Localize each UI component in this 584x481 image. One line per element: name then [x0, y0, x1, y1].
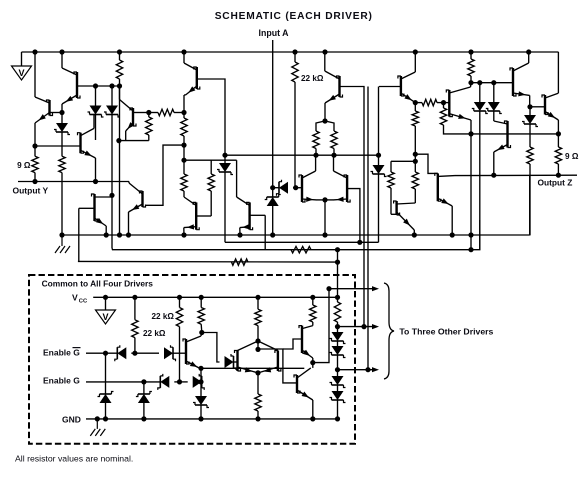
- wire Q4a-base: [79, 207, 95, 209]
- svg-text:Enable G: Enable G: [43, 376, 80, 386]
- node gnd-3: [141, 416, 146, 421]
- svg-text:9 Ω: 9 Ω: [565, 152, 579, 161]
- resistor R-lineC: [232, 259, 249, 265]
- node rail-62: [59, 49, 64, 54]
- node Gbar-clamp: [103, 351, 108, 356]
- transistor Q12: [184, 197, 199, 235]
- wire Q30-basefeed: [202, 333, 220, 363]
- transistor Q14: [299, 171, 317, 202]
- box common-drivers: [29, 275, 355, 444]
- resistor R-391: [388, 161, 397, 214]
- node D5-top: [491, 80, 496, 85]
- wire Q30e-Q33coll: [201, 367, 304, 369]
- transistor Q11: [129, 183, 146, 212]
- resistor R4: [146, 113, 152, 141]
- node pair-emit: [322, 197, 327, 202]
- label Output Z: [538, 177, 573, 187]
- transistor Q30: [183, 336, 201, 369]
- resistor R3: [116, 52, 122, 86]
- diode D5: [486, 102, 502, 114]
- node J558-133: [556, 131, 561, 136]
- transistor Q18: [446, 87, 471, 121]
- wire Q9-coll: [529, 95, 531, 106]
- node vcc-4: [199, 295, 204, 300]
- diode D-378: [371, 155, 387, 242]
- wire Q2-feed: [61, 52, 63, 68]
- node gnd-5: [255, 416, 260, 421]
- transistor Q13: [237, 197, 253, 235]
- resistor R-22k-input: [292, 52, 298, 188]
- node rail-35: [32, 49, 37, 54]
- wire D4-cath: [479, 111, 481, 250]
- node gnd-7: [335, 416, 340, 421]
- wire Q7-coll-up: [324, 52, 326, 71]
- transistor Q32: [299, 326, 313, 358]
- wire Q6feed: [183, 52, 185, 63]
- node rail-184: [181, 49, 186, 54]
- wire Q5-emit: [125, 131, 127, 141]
- wire Q4a-emit: [105, 226, 107, 235]
- node OutY-1: [93, 179, 98, 184]
- wire tap3: [338, 367, 380, 372]
- node vcc-6: [310, 295, 315, 300]
- diode D-Gbar2: [159, 345, 176, 361]
- wire Q13-base: [250, 215, 266, 249]
- wire D3-lead: [111, 86, 113, 106]
- resistor R7a: [181, 160, 187, 197]
- node vcc-1: [103, 295, 108, 300]
- diode D3: [104, 106, 120, 118]
- wire G-seg2: [180, 381, 188, 383]
- wire Q19-emit: [493, 152, 495, 175]
- node D4-top: [477, 80, 482, 85]
- node Q32-emit: [310, 360, 315, 365]
- node Q30-collnode: [199, 330, 204, 335]
- diode D1: [54, 113, 70, 147]
- wire InputA-line: [272, 40, 274, 188]
- node D530-top: [527, 104, 532, 109]
- wire hexmid-Q33base: [258, 349, 297, 383]
- node vcc-7: [335, 295, 340, 300]
- wire Q5-feed: [119, 86, 121, 100]
- wire D3-cath: [111, 115, 113, 196]
- resistor R-415: [412, 103, 418, 126]
- node J471-82: [468, 80, 473, 85]
- transistor Q15: [333, 171, 350, 202]
- transistor Q9 pnp: [510, 63, 530, 97]
- wire Q19-coll: [0, 0, 1, 1]
- wire rail-end-down: [557, 52, 559, 93]
- resistor R-312: [310, 297, 316, 325]
- svg-text:Output Z: Output Z: [538, 177, 573, 187]
- wire tap1: [329, 286, 379, 291]
- wire yM1-line: [225, 154, 379, 156]
- node Q8bd: [376, 153, 381, 158]
- wire A1-A2-Q3base: [35, 145, 81, 147]
- wire lower-rail: [62, 175, 530, 235]
- diode Dstk4: [330, 385, 346, 419]
- transistor Q19: [494, 121, 511, 152]
- label EnableGbar: [43, 347, 81, 357]
- wire Q7-emit: [324, 103, 326, 121]
- wire Q32-emit: [312, 358, 314, 363]
- wire Q11-coll-outY: [128, 182, 130, 184]
- wire Q2-coll-down: [61, 104, 63, 113]
- ground main-left: [55, 236, 70, 253]
- wire Q8-base-down: [378, 87, 380, 156]
- wire lineB: [112, 220, 480, 250]
- label EnableG: [43, 376, 80, 386]
- wire D2-lead: [95, 86, 97, 106]
- node J415b: [413, 159, 418, 164]
- label 22k-Gbar: [143, 329, 166, 338]
- label 9ohm-left: [17, 161, 31, 170]
- wire Q32-base: [283, 339, 302, 349]
- wire Q11-emit: [128, 212, 130, 235]
- diode D530: [522, 107, 538, 134]
- wire top-rail: [22, 51, 559, 53]
- svg-text:Common to All Four Drivers: Common to All Four Drivers: [42, 279, 154, 289]
- node hex-emit: [255, 370, 260, 375]
- wire Q32emit-down: [312, 363, 314, 368]
- node G-clamp: [141, 379, 146, 384]
- wire Q7-base: [340, 87, 365, 327]
- svg-text:Output Y: Output Y: [13, 185, 49, 195]
- node J530-133: [0, 0, 1, 1]
- wire stack-entry: [337, 262, 339, 302]
- wire Q6-coll: [184, 95, 186, 113]
- note: [15, 454, 133, 464]
- node rail2-b: [104, 232, 109, 237]
- node hex-mid: [255, 347, 260, 352]
- wire Q30-coll: [200, 333, 203, 337]
- transistor Q31: [235, 351, 259, 375]
- wire J145-J160: [183, 145, 185, 160]
- wire Gbar-seg2: [135, 352, 159, 354]
- node rail2-h: [322, 232, 327, 237]
- wire D3-lineB: [111, 195, 113, 248]
- wire Q5-base: [133, 112, 149, 114]
- svg-text:All resistor values are nomina: All resistor values are nominal.: [15, 454, 133, 464]
- node tap3-x368: [365, 367, 370, 372]
- node gnd-1: [95, 416, 100, 421]
- transistor Q8: [398, 72, 415, 103]
- resistor R2: [59, 146, 65, 235]
- diode D-mid-h: [273, 180, 296, 196]
- node rail2-c: [117, 232, 122, 237]
- node lineB-471: [468, 247, 473, 252]
- node OutZ-2: [556, 173, 561, 178]
- resistor R-443: [440, 103, 471, 134]
- node rail2-f: [237, 232, 242, 237]
- label to-three: [399, 327, 493, 337]
- wire Q4a-base-down: [78, 208, 80, 261]
- wire Q9-feed: [528, 52, 530, 63]
- wire lineB-tapdown: [337, 250, 339, 262]
- node rail-471: [468, 49, 473, 54]
- wire EnableG: [86, 381, 160, 383]
- diode Dstk3: [330, 370, 346, 388]
- node gnd-2: [103, 416, 108, 421]
- transistor Q10: [435, 173, 455, 206]
- node rail-119.5: [117, 49, 122, 54]
- node gnd-4: [198, 416, 203, 421]
- node rail-528.7: [526, 49, 531, 54]
- wire Q18-emit: [470, 120, 472, 134]
- node Re1: [313, 153, 318, 158]
- node J145: [181, 143, 186, 148]
- node lineB-tap: [335, 247, 340, 252]
- diode D-G2: [193, 374, 205, 390]
- node J140: [116, 138, 121, 143]
- node J471-133: [468, 131, 473, 136]
- node rail2-a: [59, 232, 64, 237]
- node G-Q30e: [198, 379, 203, 384]
- node rail2-e: [181, 232, 186, 237]
- wire EnableGbar: [86, 352, 117, 354]
- transistor Q4a: [92, 194, 112, 226]
- wire x119-down: [119, 86, 121, 235]
- node R4-top: [146, 110, 151, 115]
- label common: [42, 279, 154, 289]
- node rail-325: [322, 49, 327, 54]
- diode D-Gbar1: [115, 345, 135, 361]
- wire y106-line: [530, 106, 545, 108]
- wire Q18-base: [444, 102, 450, 104]
- node A2: [0, 0, 1, 1]
- resistor R-530: [527, 134, 533, 175]
- wire Q6-base: [197, 79, 225, 155]
- transistor Q6 pnp: [184, 63, 200, 95]
- node rail2-j: [412, 232, 417, 237]
- svg-text:V: V: [18, 68, 24, 78]
- wire emit-split: [316, 121, 334, 131]
- wire Vcc-line: [93, 296, 337, 298]
- svg-text:22 kΩ: 22 kΩ: [301, 74, 324, 83]
- resistor R-258: [255, 297, 261, 340]
- node R3-bot: [117, 83, 122, 88]
- diode D-clampG: [136, 382, 152, 419]
- node tap1: [326, 286, 331, 291]
- node rail-415.3: [413, 49, 418, 54]
- label 22k-G: [152, 312, 175, 321]
- wire yM2-line: [184, 159, 237, 161]
- wire Q1-emitter-down: [34, 123, 36, 146]
- wire Q30-emit-down: [200, 369, 202, 396]
- resistor R-558 9ohm: [555, 134, 561, 175]
- wire x471-down: [470, 134, 472, 250]
- wire Q3-emit-down: [95, 158, 97, 182]
- node A1: [32, 143, 37, 148]
- wire Q14-emit-j: [317, 199, 325, 201]
- svg-text:22 kΩ: 22 kΩ: [143, 329, 166, 338]
- svg-text:V: V: [72, 293, 78, 303]
- node rail2-g: [270, 232, 275, 237]
- transistor Q7: [325, 71, 343, 103]
- label Output Y: [13, 185, 49, 195]
- wire Q15-base: [347, 189, 360, 243]
- resistor R-415b: [412, 172, 418, 203]
- power Vcc symbol: [12, 66, 32, 80]
- svg-text:GND: GND: [62, 414, 81, 424]
- resistor Rh-Q8e: [415, 99, 443, 105]
- diode D-hex: [220, 354, 237, 370]
- svg-text:To Three Other Drivers: To Three Other Drivers: [399, 327, 493, 337]
- resistor R22k-Gbar: [132, 297, 138, 353]
- wire D5-lead: [493, 83, 495, 102]
- resistor R-471: [468, 52, 474, 83]
- wire tap2: [338, 324, 380, 329]
- node D3-top: [109, 83, 114, 88]
- wire Q8-coll-up: [414, 52, 416, 72]
- node lineA-tap: [357, 240, 362, 245]
- ground box-gnd: [90, 419, 105, 436]
- wire yM2-right: [391, 160, 415, 162]
- diode D225: [217, 155, 233, 242]
- wire Q11-base-path: [146, 145, 184, 205]
- node vcc-2: [132, 295, 137, 300]
- resistor R5: [149, 109, 184, 115]
- resistor R7b: [208, 160, 214, 216]
- wire node133-line: [471, 133, 558, 135]
- wire Q20-emit: [557, 120, 559, 134]
- transistor Q33: [294, 368, 313, 400]
- node yM1-left: [222, 153, 227, 158]
- node Q8-emit: [413, 100, 418, 105]
- wire OutputZ: [455, 174, 577, 176]
- diode D-mid-v: [265, 188, 281, 235]
- node lineC-end: [335, 260, 340, 265]
- diode Dstk2: [330, 341, 346, 370]
- node vcc-3: [177, 295, 182, 300]
- diode D4: [472, 102, 488, 114]
- resistor R-hex: [255, 394, 261, 419]
- wire D2-cath: [95, 115, 97, 141]
- wire Q8basedown2: [367, 87, 369, 370]
- wire hex-d1: [238, 341, 259, 351]
- resistor R-e1: [313, 131, 319, 155]
- resistor R-lineB: [291, 247, 311, 253]
- diode D-clampGbar: [98, 353, 114, 419]
- resistor R-stack: [334, 302, 340, 327]
- power Vcc-tri-box: [96, 297, 116, 324]
- wire Q3-coll-up: [94, 115, 96, 129]
- wire Vcc-stub: [21, 52, 23, 66]
- brace to-three: [384, 283, 394, 379]
- wire Gbar-Q30: [173, 352, 186, 354]
- resistor R-Q30: [198, 297, 204, 332]
- node stack-2: [335, 367, 340, 372]
- svg-text:9 Ω: 9 Ω: [17, 161, 31, 170]
- wire x415-down: [414, 126, 416, 172]
- node gnd-6: [310, 416, 315, 421]
- wire base-bus-left: [77, 85, 120, 87]
- wire Q18-coll: [470, 83, 473, 87]
- node rail2-d: [126, 232, 131, 237]
- node J160: [181, 158, 186, 163]
- title: [215, 11, 373, 22]
- wire lineC: [78, 260, 336, 263]
- wire Q12-base: [196, 215, 211, 217]
- transistor Q5: [120, 100, 137, 132]
- node Re2: [331, 153, 336, 158]
- wire pair-emit-down: [324, 200, 326, 235]
- wire Q1-base: [50, 112, 63, 114]
- node G-R: [177, 379, 182, 384]
- wire Q17-emit: [413, 230, 415, 235]
- wire hex-emit-down: [257, 373, 259, 394]
- wire Q15-emit-j: [325, 199, 333, 201]
- wire Q8-base: [379, 86, 401, 88]
- node rail-295: [292, 49, 297, 54]
- diode Dstk1: [330, 327, 346, 344]
- node hex-top: [255, 338, 260, 343]
- wire OutputY: [18, 181, 129, 183]
- node stack-1: [335, 324, 340, 329]
- node J415a: [413, 152, 418, 157]
- node J443: [441, 100, 446, 105]
- svg-text:SCHEMATIC (EACH DRIVER): SCHEMATIC (EACH DRIVER): [215, 11, 373, 22]
- node R1-out: [32, 179, 37, 184]
- node vcc-5: [255, 295, 260, 300]
- transistor Q1: [35, 97, 53, 123]
- node Q30e-T: [198, 366, 203, 371]
- wire Q10-emit: [451, 206, 453, 235]
- node rail2-m: [468, 232, 473, 237]
- svg-text:CC: CC: [79, 298, 88, 304]
- wire Q13-coll-up: [236, 160, 238, 197]
- diode D-Q30e: [193, 396, 209, 419]
- svg-text:Enable G: Enable G: [43, 347, 80, 357]
- node D1-top: [59, 110, 64, 115]
- transistor Q17: [394, 201, 416, 230]
- node rail2-l: [450, 232, 455, 237]
- node Q4a-coll: [109, 193, 114, 198]
- label 22k-input: [301, 74, 324, 83]
- wire Q4a-coll: [110, 195, 113, 197]
- resistor R6: [181, 113, 187, 146]
- node In-D: [270, 185, 275, 190]
- node Gbar-R: [132, 351, 137, 356]
- wire hex-d2: [258, 341, 278, 351]
- diode D2: [88, 106, 104, 118]
- wire Q33-emit: [312, 400, 314, 419]
- resistor R-e2: [331, 131, 337, 155]
- node R6-top: [181, 110, 186, 115]
- wire R530-underloop: [529, 175, 531, 235]
- wire Dhex-out: [234, 361, 237, 363]
- transistor Q2: [62, 68, 80, 104]
- wire hex-top: [257, 341, 259, 349]
- svg-text:Input A: Input A: [259, 28, 290, 38]
- label 9ohm-right: [565, 152, 579, 161]
- wire Q32emit-right: [313, 289, 329, 363]
- node D-mid-anode: [293, 185, 298, 190]
- wire lineA: [225, 241, 379, 243]
- resistor R1 9ohm: [32, 146, 38, 182]
- wire Q10-base-path: [415, 154, 438, 173]
- label Input A: [259, 28, 290, 38]
- wire D4-lead: [479, 83, 481, 102]
- transistor Q3: [78, 128, 96, 158]
- wire D5-cath: [493, 111, 495, 121]
- wire base-bus-right: [471, 82, 513, 84]
- label Vcc: [72, 293, 88, 305]
- svg-text:V: V: [102, 312, 108, 322]
- transistor Q20: [542, 93, 558, 120]
- node tap2-x363: [361, 324, 366, 329]
- wire T1-feed: [34, 52, 36, 97]
